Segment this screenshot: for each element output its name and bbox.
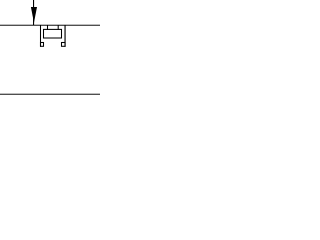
component Y1 stub B (pin 3) (57, 25, 59, 30)
component Y1 body (rectangle) (44, 29, 62, 38)
wire net2 (bottom horizontal wire) (0, 93, 100, 95)
wire net1 (top horizontal wire) (0, 24, 100, 26)
probe arrow shaft (33, 0, 35, 25)
component Y1 right leg (pin 4) (64, 25, 66, 47)
component Y1 stub A (pin 2) (47, 25, 49, 30)
component Y1 right pad square (62, 43, 66, 47)
component Y1 left pad square (41, 43, 44, 47)
component Y1 left leg (pin 1) (40, 25, 42, 47)
probe arrow head (31, 7, 37, 23)
